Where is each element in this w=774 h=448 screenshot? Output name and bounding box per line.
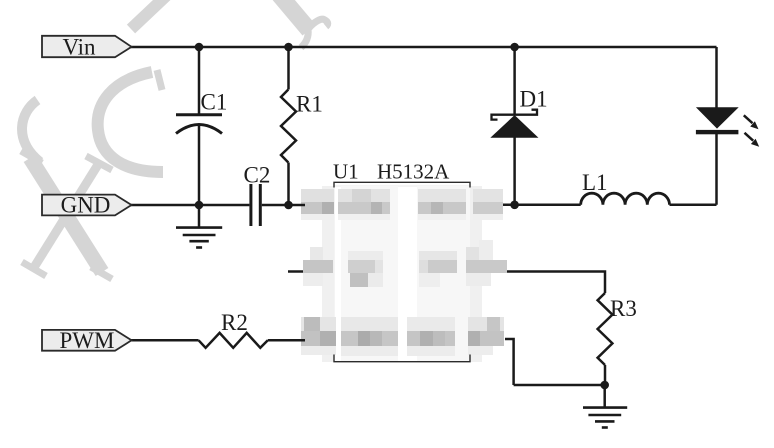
IC U1 pixelated pin row 2 [303, 240, 507, 287]
wire to ground2 [514, 384, 605, 387]
svg-text:C2: C2 [244, 163, 271, 188]
ground symbol 1 [176, 228, 222, 248]
svg-text:R3: R3 [610, 296, 637, 321]
wire pin2 right to R3 [507, 272, 605, 294]
watermark X thin stroke [33, 163, 99, 269]
wire R1 bottom [287, 163, 290, 206]
IC U1 pixelated pin row 3 [301, 317, 504, 356]
svg-text:GND: GND [61, 193, 111, 218]
LED arrow 2 [745, 133, 760, 147]
svg-text:R1: R1 [296, 92, 323, 117]
watermark X thick stroke [30, 158, 102, 272]
wire GND rail [130, 204, 249, 207]
junction node R1-C2 [284, 201, 293, 210]
svg-text:L1: L1 [582, 170, 608, 195]
svg-text:D1: D1 [520, 87, 548, 112]
watermark C glyph [98, 72, 163, 172]
capacitor C2 [251, 184, 260, 226]
inductor L1 [581, 193, 670, 205]
junction node Vin-R1 [284, 43, 293, 52]
wire C2 to node [262, 204, 305, 207]
wire LED branch bottom [715, 134, 718, 205]
wire R2 to IC [268, 339, 305, 342]
svg-text:C1: C1 [201, 90, 228, 115]
wire PWM to R2 [130, 339, 199, 342]
IC U1 body faint outline [322, 186, 482, 362]
wire R3 bottom [604, 365, 607, 385]
connector GND flag [42, 195, 132, 216]
svg-text:H5132A: H5132A [377, 160, 450, 184]
wire ground2 stub [603, 385, 606, 407]
connector PWM flag [42, 330, 132, 351]
svg-text:Vin: Vin [62, 34, 96, 59]
junction node Vin-D1 [510, 43, 519, 52]
resistor R2 [199, 333, 268, 348]
capacitor C1 [176, 115, 222, 134]
wire node to L1 [503, 204, 581, 207]
watermark partial glyph top [277, 0, 309, 30]
LED cathode bar [696, 130, 739, 134]
svg-text:R2: R2 [221, 310, 248, 335]
LED arrow 1 [744, 115, 759, 129]
junction node D1-L1 [510, 201, 519, 210]
diode D1 triangle [492, 116, 538, 138]
watermark slash glyph [131, 0, 167, 29]
wire LED branch top [715, 47, 718, 108]
connector Vin flag [42, 36, 132, 57]
wire pin3 right down [505, 339, 514, 385]
wire C1 top [198, 47, 201, 114]
IC U1 bottom bracket [334, 355, 470, 362]
LED triangle [696, 107, 739, 128]
wire top rail Vin [130, 46, 717, 49]
wire L1 to LED [670, 204, 717, 207]
wire ground1 stub [198, 205, 201, 227]
IC U1 pixelated pin row 1 [301, 189, 503, 220]
IC U1 top bracket [334, 182, 470, 187]
svg-text:U1: U1 [333, 160, 359, 184]
ground symbol 2 [583, 408, 627, 428]
junction node Vin-C1 [195, 43, 204, 52]
watermark stroke left-edge paren [21, 0, 328, 279]
wire pin2 left stub [288, 270, 303, 273]
wire D1 bottom [513, 138, 516, 205]
junction node R3-ground [600, 381, 609, 390]
wire C1 bottom [198, 124, 201, 206]
resistor R1 [281, 90, 296, 163]
resistor R3 [598, 293, 613, 365]
svg-text:PWM: PWM [60, 328, 115, 353]
wire R1 top [287, 47, 290, 90]
junction node GND-C1 [195, 201, 204, 210]
diode D1 schottky bar [492, 110, 538, 120]
wire D1 top [513, 47, 516, 114]
